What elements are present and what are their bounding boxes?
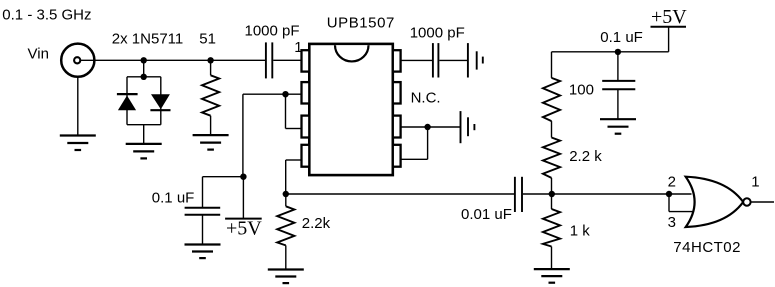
node: pin2/pin3 junction xyxy=(282,91,288,97)
wire: C5 to gate input xyxy=(523,193,692,195)
wire: junction down to +5V symbol xyxy=(242,177,244,219)
resistor R2 2.2k xyxy=(277,194,294,270)
node: divider node xyxy=(549,191,555,197)
svg-text:+5V: +5V xyxy=(651,6,687,28)
wire: junction to C4 xyxy=(617,52,619,81)
wire: junction down to diode box xyxy=(143,60,145,77)
connector J1 Vin (BNC) xyxy=(61,44,94,77)
ground (R2) xyxy=(268,270,304,284)
node: junction main line / diode pair xyxy=(141,57,147,63)
wire: to pin 5 xyxy=(401,158,428,160)
resistor R3 100 xyxy=(543,52,560,121)
ground (RF, pins 5/6) xyxy=(461,111,475,143)
wire: diode box frame xyxy=(127,77,161,125)
pin 5 box xyxy=(393,145,401,167)
svg-text:2.2k: 2.2k xyxy=(302,215,331,232)
inverter bubble xyxy=(743,198,750,205)
node: pin 4 output node xyxy=(283,191,289,197)
capacitor C3 0.1 uF xyxy=(185,208,221,215)
svg-text:0.1 uF: 0.1 uF xyxy=(600,29,643,46)
wire: BNC shell to ground xyxy=(77,77,79,136)
wire: +5V rail to R3 xyxy=(552,51,669,53)
node: +5V / bypass cap junction xyxy=(240,174,246,180)
wire: junction down xyxy=(427,127,429,159)
ground (R1) xyxy=(193,135,229,150)
wire: pin 4 feed xyxy=(286,159,301,161)
pin 7 box xyxy=(393,82,401,103)
wire: +5V riser to pins 2/3 xyxy=(242,94,244,177)
ground (R5) xyxy=(534,269,570,283)
diode D2 1N5711 (cathode down) xyxy=(150,94,170,110)
pin 2 box xyxy=(302,82,310,103)
wire: pin 4 down to output node xyxy=(285,160,287,194)
svg-text:2.2 k: 2.2 k xyxy=(569,148,602,165)
gate U2 74HCT02 NOR xyxy=(686,177,744,227)
wire: junction to bypass cap xyxy=(203,176,244,178)
diode D1 1N5711 (cathode up) xyxy=(117,94,138,110)
svg-text:1: 1 xyxy=(751,174,759,191)
ground (BNC) xyxy=(60,136,96,151)
svg-text:0.1 uF: 0.1 uF xyxy=(152,190,195,207)
wire: +5V drop xyxy=(668,27,670,52)
svg-text:51: 51 xyxy=(199,31,216,48)
pin 4 box xyxy=(302,145,310,167)
wire: C1 to pin 1 xyxy=(273,59,301,61)
wire: C2 to RF ground xyxy=(439,59,468,61)
capacitor C2 1000 pF xyxy=(433,43,439,77)
svg-text:N.C.: N.C. xyxy=(411,90,441,107)
power +5V (top right) xyxy=(651,6,688,28)
pin 3 box xyxy=(302,116,310,138)
wire: to gate pin 3 xyxy=(669,211,694,213)
node: +5V / C4 junction xyxy=(615,49,621,55)
wire: C3 bottom to ground xyxy=(202,215,204,245)
wire: pin 6 to RF ground xyxy=(401,126,461,128)
node: top of diode box xyxy=(141,74,147,80)
pin 8 box xyxy=(393,50,401,71)
capacitor C4 0.1 uF xyxy=(602,81,635,89)
wire: into C3 top xyxy=(202,177,204,208)
pin 6 box xyxy=(393,116,401,138)
svg-text:100: 100 xyxy=(569,82,594,99)
resistor R5 1 k xyxy=(543,194,560,269)
wire: pin 8 to C2 xyxy=(401,59,432,61)
svg-text:0.1 - 3.5 GHz: 0.1 - 3.5 GHz xyxy=(2,6,91,23)
ground (C4) xyxy=(600,119,636,134)
svg-text:1000 pF: 1000 pF xyxy=(410,24,465,41)
wire: diode box to ground xyxy=(143,125,145,144)
svg-text:+5V: +5V xyxy=(226,217,262,239)
wire: output node to C5 xyxy=(286,193,514,195)
svg-text:Vin: Vin xyxy=(28,46,49,63)
svg-text:74HCT02: 74HCT02 xyxy=(673,239,741,256)
ground (RF, output cap) xyxy=(468,43,483,77)
node: junction main line / R1 xyxy=(207,57,213,63)
IC U1 notch xyxy=(335,45,369,61)
resistor R1 51 xyxy=(202,60,219,135)
wire: Vin to C1 (main signal line) xyxy=(81,59,266,61)
resistor R4 2.2 k xyxy=(543,121,560,194)
svg-text:2: 2 xyxy=(668,174,676,191)
node: pin5/pin6 junction xyxy=(424,124,430,130)
svg-text:2x 1N5711: 2x 1N5711 xyxy=(112,30,183,47)
node: gate input junction xyxy=(666,191,672,197)
svg-text:3: 3 xyxy=(668,214,676,231)
power +5V (bottom) xyxy=(225,217,262,239)
wire: gate output xyxy=(751,201,774,203)
wire: junction down xyxy=(285,94,287,128)
wire: junction down xyxy=(668,194,670,212)
IC U1 UPB1507 body xyxy=(309,44,393,175)
capacitor C5 0.01 uF xyxy=(515,177,522,212)
ground (C3) xyxy=(185,245,221,259)
pin 1 box xyxy=(302,50,310,71)
svg-text:1000 pF: 1000 pF xyxy=(245,23,300,40)
svg-text:UPB1507: UPB1507 xyxy=(327,15,395,32)
svg-text:1 k: 1 k xyxy=(570,223,591,240)
capacitor C1 1000 pF xyxy=(266,42,272,78)
ground (diode pair) xyxy=(126,144,162,159)
wire: pin 2 feed line xyxy=(243,93,301,95)
wire: to pin 3 xyxy=(286,128,302,130)
wire: C4 to ground xyxy=(617,89,619,119)
svg-text:0.01 uF: 0.01 uF xyxy=(461,206,512,223)
